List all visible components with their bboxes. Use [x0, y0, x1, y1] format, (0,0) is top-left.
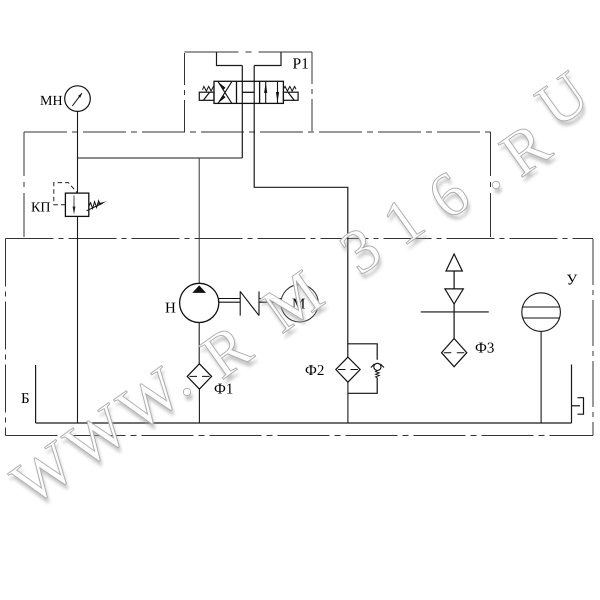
- relief valve КП body: [65, 193, 88, 216]
- enclosure P1 valve block (dash-dot): [185, 52, 313, 132]
- manifold T-block: [217, 52, 282, 65]
- pipe level indicator drop: [540, 331, 542, 423]
- spring left: [203, 86, 214, 91]
- valve Р1 centre position H-link: [242, 91, 254, 93]
- valve Р1 left position crossed arrows: [218, 82, 232, 103]
- solenoid right: [283, 92, 298, 100]
- valve Р1 right position straight arrows: [264, 82, 279, 103]
- pipe valve left port down to pressure line: [241, 66, 243, 159]
- pipe suction stub Б: [35, 365, 37, 423]
- directional valve Р1 body: [214, 81, 283, 103]
- filter Ф3: [442, 339, 467, 367]
- motor М: [281, 285, 318, 322]
- enclosure hydraulic panel (dash-dot): [24, 132, 491, 239]
- svg-text:МН: МН: [40, 94, 63, 109]
- bypass check valve branch: [348, 344, 377, 394]
- pipe pump riser: [198, 158, 200, 283]
- drain plug symbol: [572, 398, 584, 415]
- filter Ф2: [336, 357, 360, 382]
- breather assembly air triangles: [445, 254, 463, 339]
- svg-text:Б: Б: [21, 391, 30, 407]
- pipe right stub with plug: [571, 365, 573, 424]
- pipe pressure header: [78, 157, 243, 159]
- svg-text:У: У: [567, 273, 578, 289]
- pump Н: [180, 283, 219, 322]
- filter Ф1: [187, 364, 211, 389]
- solenoid left: [199, 92, 214, 100]
- svg-text:Ф3: Ф3: [475, 341, 494, 357]
- svg-text:Р1: Р1: [293, 56, 309, 73]
- pipe tank bottom header: [36, 422, 572, 424]
- level indicator У: [522, 293, 561, 332]
- svg-text:Ф2: Ф2: [305, 363, 324, 379]
- shaft coupling: [219, 291, 281, 315]
- spring right: [284, 86, 296, 91]
- tank top line at breather: [421, 311, 489, 313]
- svg-text:КП: КП: [31, 201, 50, 216]
- pipe gauge / relief line: [77, 111, 79, 423]
- pipe filter Ф2 to tank line: [347, 382, 349, 423]
- check valve ball and seat: [371, 363, 384, 378]
- pipe valve right port down and over to return filter: [254, 66, 348, 358]
- relief valve КП spring and adjust arrow: [87, 201, 104, 211]
- svg-text:Н: Н: [165, 301, 176, 317]
- pipe filter Ф1 to tank line: [198, 389, 200, 423]
- relief valve КП pilot dashed line: [54, 183, 78, 205]
- pressure gauge МН: [65, 86, 91, 112]
- pipe pump suction: [198, 323, 200, 364]
- enclosure tank unit (dash-dot): [6, 239, 594, 436]
- relief valve КП internal arrow: [73, 196, 76, 215]
